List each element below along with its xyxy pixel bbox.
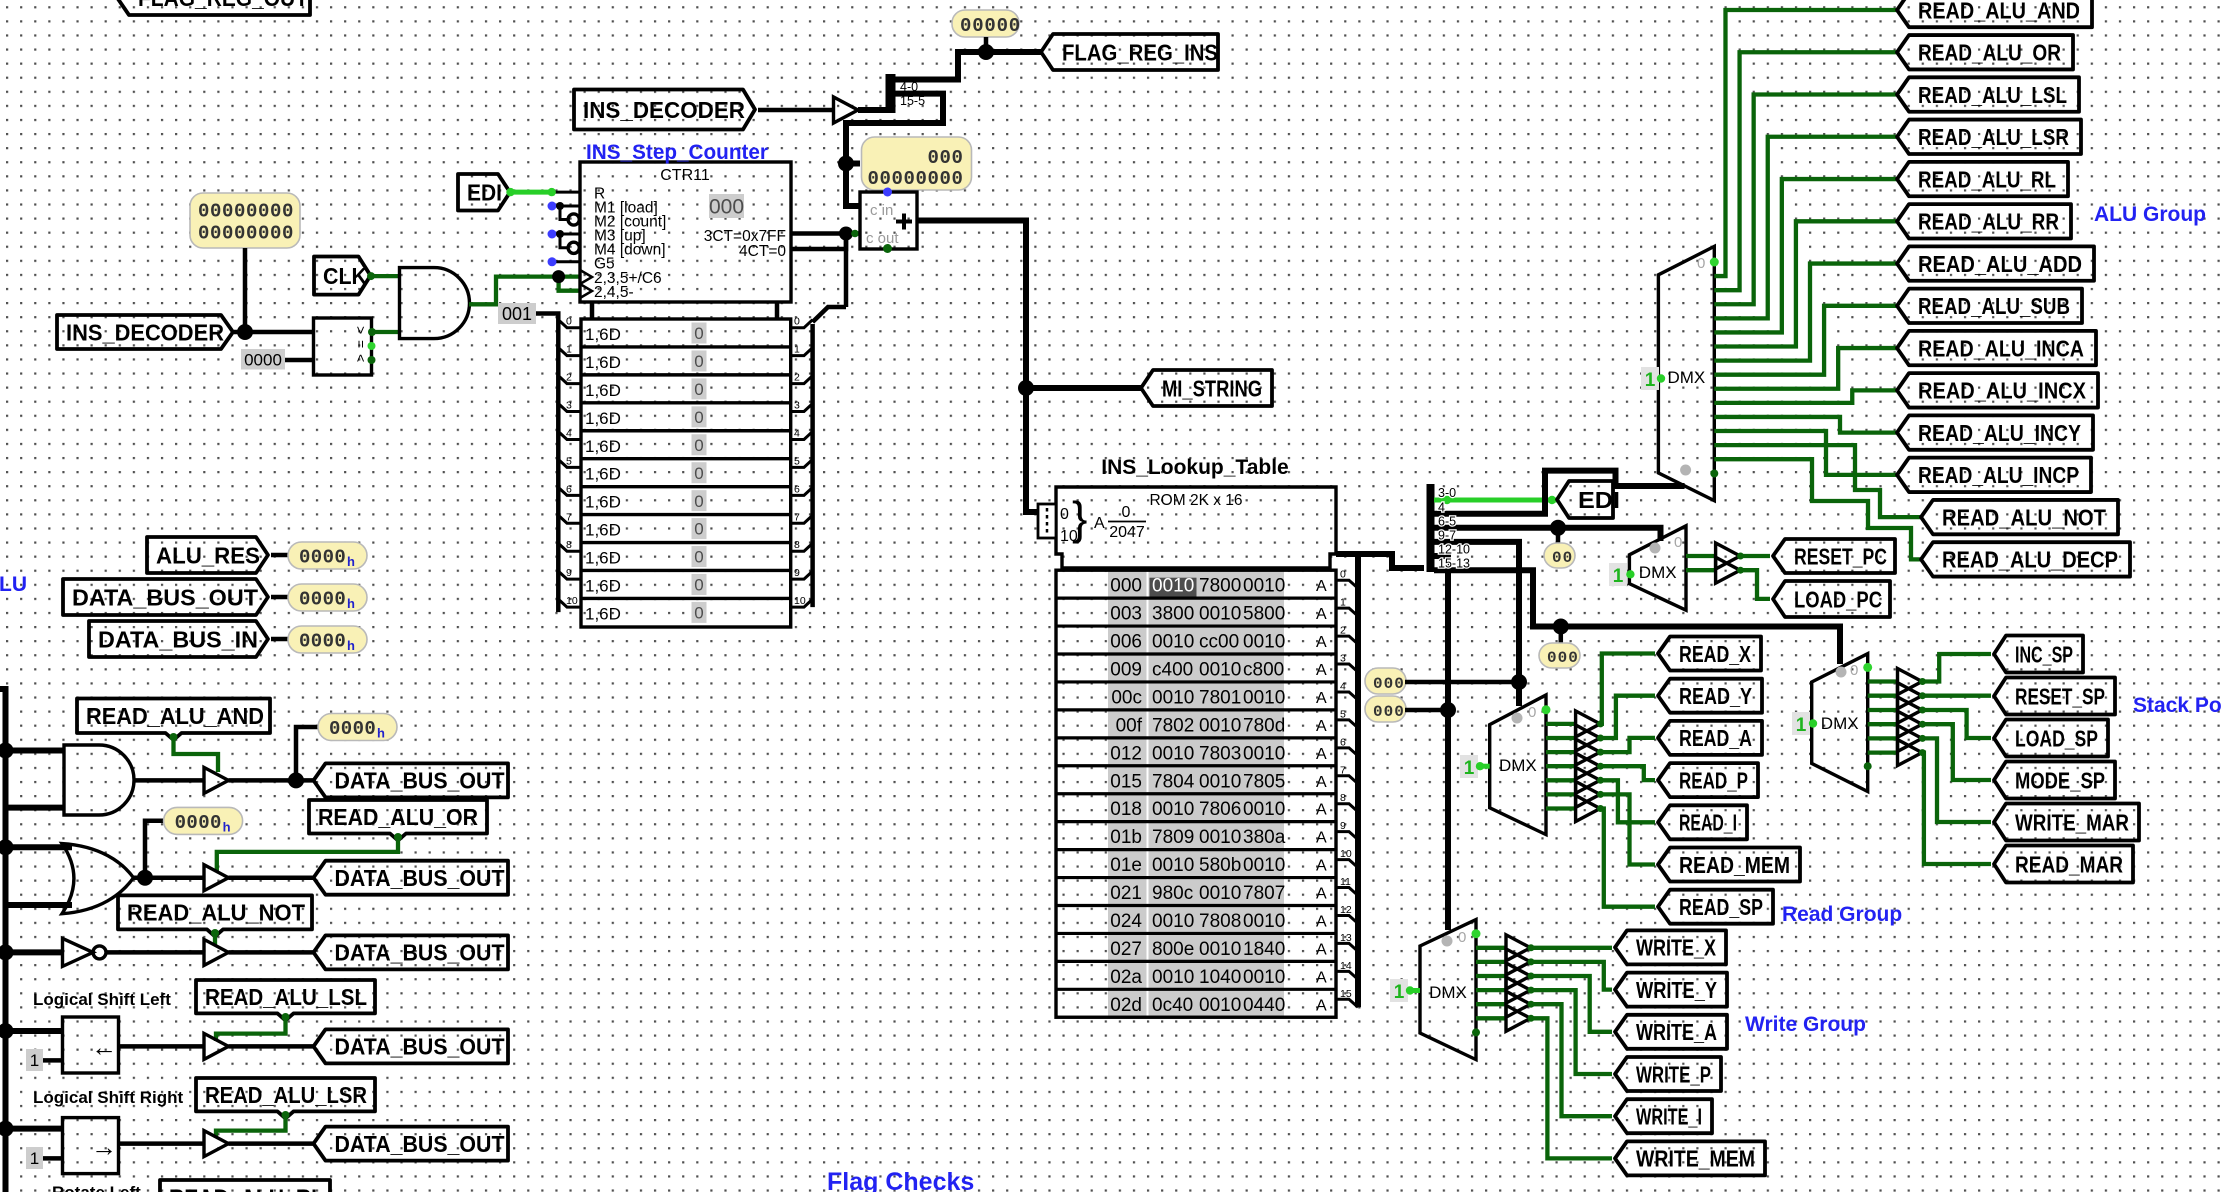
svg-text:READ_SP: READ_SP: [1679, 894, 1763, 920]
pin M2 inverted bubble: [568, 214, 579, 225]
buffer READ_I: [1576, 767, 1604, 793]
tunnel WRITE_MEM: [1615, 1141, 1765, 1175]
dark dot SP pin7: [1864, 762, 1872, 770]
svg-text:Stack Poin: Stack Poin: [2133, 694, 2222, 717]
tunnel READ_MEM: [1658, 848, 1800, 882]
svg-text:LOAD_SP: LOAD_SP: [2015, 725, 2098, 751]
svg-text:WRITE_MEM: WRITE_MEM: [1636, 1146, 1755, 1172]
demux Write group: [1420, 920, 1476, 1060]
wire ALU DMX out14 to READ_ALU_DECP: [1714, 459, 1922, 559]
wire to READ_Y: [1600, 696, 1655, 738]
svg-text:0010: 0010: [1152, 911, 1194, 932]
svg-text:0: 0: [694, 380, 703, 399]
wire OR to buffer: [134, 875, 205, 880]
ROM output tabs: [1316, 569, 1358, 1015]
svg-text:WRITE_X: WRITE_X: [1636, 935, 1717, 961]
svg-text:0: 0: [794, 316, 800, 328]
svg-text:0010: 0010: [1152, 799, 1194, 820]
svg-text:0: 0: [694, 576, 703, 595]
adder U+1: [860, 188, 917, 254]
svg-text:1,6D: 1,6D: [585, 521, 621, 540]
svg-text:A: A: [1316, 858, 1327, 875]
svg-text:MODE_SP: MODE_SP: [2015, 767, 2105, 793]
LED 2-bit PC sel: [1544, 543, 1575, 568]
svg-text:0000: 0000: [299, 547, 346, 569]
wire bus to LSR: [6, 1126, 63, 1132]
wire ALU DMX out6 to READ_ALU_RR: [1714, 221, 1898, 346]
svg-text:0: 0: [1340, 569, 1346, 581]
svg-text:cc00: cc00: [1199, 632, 1239, 653]
svg-text:6-5: 6-5: [1438, 515, 1456, 529]
wire 001 to register input tabs bus: [536, 314, 581, 613]
svg-text:<: <: [353, 354, 369, 362]
LED display 16-bit (INS_DECODER value): [190, 193, 300, 248]
tunnel READ_ALU_INCX: [1897, 373, 2098, 407]
svg-text:WRITE_MAR: WRITE_MAR: [2015, 809, 2129, 835]
svg-text:READ_ALU_AND: READ_ALU_AND: [1918, 0, 2080, 23]
wire bus to AND a: [6, 748, 65, 754]
svg-text:0440: 0440: [1243, 995, 1285, 1016]
svg-text:14: 14: [1340, 960, 1352, 972]
wire ALU DMX out2 to READ_ALU_OR: [1714, 52, 1898, 290]
svg-text:0010: 0010: [1199, 771, 1241, 792]
svg-text:A: A: [1316, 997, 1327, 1014]
svg-text:000: 000: [1547, 649, 1579, 667]
svg-text:A: A: [1316, 774, 1327, 791]
svg-text:LOAD_PC: LOAD_PC: [1794, 586, 1882, 612]
text Logical Shift Left: [33, 990, 171, 1009]
blue title Flag Checks: [827, 1168, 974, 1196]
svg-text:READ_ALU_LSL: READ_ALU_LSL: [205, 984, 367, 1010]
svg-text:READ_ALU_DECP: READ_ALU_DECP: [1942, 547, 2118, 573]
junction write-sel probe: [1440, 702, 1456, 718]
wire write DMX out3: [1476, 974, 1506, 978]
wire READ_ALU_LSR enable: [216, 1111, 290, 1138]
svg-text:7802: 7802: [1152, 715, 1194, 736]
svg-text:0000: 0000: [299, 631, 346, 653]
svg-text:READ_A: READ_A: [1679, 725, 1752, 751]
svg-text:15-13: 15-13: [1438, 557, 1470, 571]
ROM header box: [1056, 487, 1336, 568]
tunnel READ_ALU_INCP: [1897, 458, 2091, 492]
wire ALU DMX out1 to READ_ALU_AND: [1714, 10, 1898, 276]
svg-text:READ_ALU_OR: READ_ALU_OR: [1918, 40, 2061, 66]
const 1 PC DMX select: [1609, 563, 1635, 587]
buffer RESET_PC: [1716, 543, 1744, 569]
svg-text:7: 7: [794, 511, 800, 523]
svg-text:1: 1: [1796, 715, 1807, 736]
wire splitter 15-5 to adder a: [846, 94, 943, 206]
svg-text:Read Group: Read Group: [1782, 903, 1902, 926]
wire SP DMX out3: [1868, 708, 1898, 712]
svg-text:11: 11: [1340, 876, 1351, 888]
splitter output labels: [1438, 486, 1470, 571]
svg-text:1: 1: [566, 344, 572, 356]
wire adder sum to ROM address: [917, 221, 1038, 513]
wire OR probe: [145, 821, 164, 878]
svg-text:10: 10: [566, 595, 578, 607]
svg-text:CLK: CLK: [323, 263, 367, 289]
tunnel READ_ALU_RR: [1897, 204, 2071, 238]
barrel shifter LSR: [63, 1118, 119, 1174]
wire AND out to CTR11 clock pins: [469, 277, 580, 305]
wire SP DMX out4: [1868, 722, 1898, 726]
buffer NOT out: [204, 939, 229, 965]
svg-text:13: 13: [1340, 932, 1352, 944]
wire write DMX out6: [1476, 1016, 1506, 1020]
junction MI_STRING: [1018, 380, 1034, 396]
wire bus to OR a: [6, 844, 73, 850]
svg-text:12: 12: [1340, 904, 1352, 916]
wire ALU DMX out13 to READ_ALU_NOT: [1714, 445, 1922, 517]
const 1 write DMX select: [1390, 979, 1420, 1003]
svg-text:A: A: [1316, 578, 1327, 595]
svg-text:0010: 0010: [1199, 827, 1241, 848]
blue title ALU Group: [2094, 203, 2206, 226]
svg-text:Logical Shift Left: Logical Shift Left: [33, 990, 171, 1009]
buffer OR out: [204, 865, 229, 891]
svg-text:c400: c400: [1152, 660, 1193, 681]
LED 11-bit (microinstruction step): [862, 137, 972, 190]
svg-text:INS_Lookup_Table: INS_Lookup_Table: [1101, 456, 1288, 479]
buffer LOAD_SP: [1898, 697, 1927, 723]
tunnel WRITE_MAR: [1994, 804, 2139, 841]
ALU data bus (left edge): [0, 689, 6, 1192]
ROM address pin block: [1038, 504, 1056, 538]
svg-text:7807: 7807: [1243, 883, 1285, 904]
buffer LOAD_PC: [1716, 557, 1744, 583]
wire buffer to DATA_BUS_OUT (lsr): [229, 1141, 315, 1146]
wire to MI_STRING: [1026, 385, 1142, 391]
wire bus to NOT: [6, 949, 63, 955]
tunnel READ_SP: [1658, 890, 1773, 924]
buffer READ_SP: [1576, 796, 1604, 822]
AND gate (alu): [64, 745, 134, 815]
svg-text:7: 7: [1340, 764, 1346, 776]
svg-text:1: 1: [1645, 370, 1656, 391]
svg-text:READ_ALU_INCY: READ_ALU_INCY: [1918, 420, 2081, 446]
svg-text:DMX: DMX: [1821, 714, 1859, 733]
svg-text:0: 0: [1697, 255, 1705, 272]
tunnel READ_ALU_LSL enable: [196, 980, 375, 1020]
svg-text:0010: 0010: [1243, 855, 1285, 876]
svg-text:0010: 0010: [1243, 799, 1285, 820]
buffer driver: [834, 97, 859, 123]
buffer WRITE_MAR: [1898, 725, 1927, 751]
svg-text:A: A: [1316, 634, 1327, 651]
svg-text:READ_P: READ_P: [1679, 767, 1748, 793]
svg-text:5800: 5800: [1243, 604, 1285, 625]
svg-text:A: A: [1316, 802, 1327, 819]
buffer WRITE_X: [1506, 935, 1535, 961]
svg-text:5: 5: [566, 455, 572, 467]
junction read-sel probe: [1511, 674, 1527, 690]
wire buffer to DATA_BUS_OUT (or): [229, 875, 315, 880]
tunnel DATA_BUS_OUT (lsr): [314, 1127, 509, 1161]
svg-text:780d: 780d: [1243, 715, 1285, 736]
svg-text:1: 1: [1613, 566, 1624, 587]
svg-text:1,6D: 1,6D: [585, 604, 621, 623]
gray dot SP DMX input: [1836, 667, 1847, 678]
buffer WRITE_Y: [1506, 949, 1535, 975]
svg-text:READ_Y: READ_Y: [1679, 683, 1752, 709]
wire PC out1: [1686, 568, 1716, 572]
svg-text:0010: 0010: [1152, 967, 1194, 988]
svg-text:A: A: [1316, 662, 1327, 679]
wire to WRITE_MAR: [1922, 738, 1991, 822]
svg-text:READ_MEM: READ_MEM: [1679, 852, 1790, 878]
wire to INC_SP: [1922, 654, 1991, 682]
svg-text:Write Group: Write Group: [1745, 1013, 1866, 1036]
tunnel READ_I: [1658, 805, 1747, 839]
svg-text:0: 0: [694, 520, 703, 539]
svg-text:9: 9: [794, 567, 800, 579]
bright dot read pin0: [1542, 705, 1551, 714]
svg-text:1,6D: 1,6D: [585, 325, 621, 344]
svg-text:A: A: [1316, 606, 1327, 623]
wire SP DMX out5: [1868, 736, 1898, 740]
svg-text:INC_SP: INC_SP: [2015, 641, 2073, 667]
wire AND to buffer: [134, 778, 205, 783]
buffer WRITE_I: [1506, 991, 1535, 1017]
wire ALU DMX out10 to READ_ALU_INCX: [1714, 390, 1898, 403]
buffer LSL out: [204, 1033, 229, 1059]
svg-text:2: 2: [566, 372, 572, 384]
splitter 16 to 4-0/15-5: [886, 74, 926, 113]
tunnel WRITE_X: [1615, 930, 1726, 964]
svg-text:c in: c in: [870, 202, 893, 219]
svg-text:12-10: 12-10: [1438, 543, 1470, 557]
demux ALU group: [1658, 246, 1714, 500]
pin M1 stub: [548, 202, 581, 220]
svg-text:DATA_BUS_OUT: DATA_BUS_OUT: [72, 584, 258, 610]
svg-text:7803: 7803: [1199, 743, 1241, 764]
tunnel READ_ALU_SUB: [1897, 289, 2082, 323]
svg-text:READ_X: READ_X: [1679, 641, 1752, 667]
svg-text:1,6D: 1,6D: [585, 353, 621, 372]
gray dot write DMX input: [1442, 936, 1453, 947]
wire to WRITE_A: [1531, 976, 1613, 1032]
svg-text:580b: 580b: [1199, 855, 1241, 876]
tunnel DATA_BUS_OUT probe: [63, 579, 268, 615]
svg-text:0: 0: [694, 352, 703, 371]
comparator (a=b): [314, 318, 376, 375]
svg-text:3: 3: [794, 400, 800, 412]
wire const to LSL: [43, 1058, 63, 1063]
tunnel READ_ALU_NOT: [1921, 500, 2118, 534]
wire to WRITE_P: [1531, 990, 1613, 1074]
wire read DMX out4: [1546, 764, 1576, 768]
NOT gate: [63, 938, 107, 966]
svg-text:>: >: [353, 326, 369, 334]
junction clock wire: [552, 270, 565, 283]
tunnel READ_Y: [1658, 679, 1762, 713]
counter CTR11 box: [580, 162, 791, 302]
bright dot ALU pin0: [1710, 258, 1719, 267]
svg-text:021: 021: [1110, 883, 1142, 904]
svg-text:0: 0: [1850, 662, 1858, 679]
gray dot PC DMX input: [1650, 543, 1661, 554]
svg-text:8: 8: [794, 539, 800, 551]
buffer READ_A: [1576, 739, 1604, 765]
svg-text:1: 1: [1464, 758, 1475, 779]
tunnel READ_ALU_NOT enable: [118, 895, 312, 936]
tunnel READ_ALU_INCA: [1897, 331, 2096, 365]
svg-text:0: 0: [694, 408, 703, 427]
svg-text:EDI: EDI: [1578, 487, 1620, 513]
svg-text:DATA_BUS_OUT: DATA_BUS_OUT: [335, 865, 505, 891]
tunnel READ_ALU_AND: [1897, 0, 2092, 27]
svg-text:02a: 02a: [1110, 967, 1142, 988]
wire DATA_BUS_OUT probe: [271, 595, 290, 600]
wire to LED 11-bit: [846, 161, 860, 167]
svg-text:8: 8: [566, 539, 572, 551]
wire read DMX out6: [1546, 792, 1576, 796]
svg-text:0010: 0010: [1243, 911, 1285, 932]
text Logical Shift Right: [33, 1088, 183, 1107]
value 0000 (comparator b): [241, 349, 285, 370]
wire 12-10 to write DMX: [1434, 556, 1448, 930]
tunnel READ_ALU_OR: [1897, 35, 2073, 69]
svg-text:018: 018: [1110, 799, 1142, 820]
buffer READ_MAR: [1898, 740, 1927, 766]
demux Read group: [1490, 695, 1546, 835]
tunnel MI_STRING: [1141, 370, 1272, 406]
svg-text:DATA_BUS_OUT: DATA_BUS_OUT: [335, 1034, 505, 1060]
svg-text:A: A: [1316, 886, 1327, 903]
tunnel EDI (top left): [458, 174, 510, 211]
tunnel READ_A: [1658, 721, 1762, 755]
junction bus NOT: [0, 944, 14, 960]
wire NOT to buffer: [106, 950, 204, 955]
svg-text:h: h: [377, 726, 385, 741]
tunnel LOAD_SP: [1994, 720, 2108, 757]
svg-text:FLAG_REG_OUT: FLAG_REG_OUT: [138, 0, 308, 11]
wire INS_DECODER to buffer: [758, 108, 833, 113]
wire to READ_SP: [1600, 809, 1655, 907]
svg-text:RESET_PC: RESET_PC: [1794, 543, 1887, 569]
pin M4 inverted bubble: [568, 242, 579, 253]
svg-text:FLAG_REG_INS: FLAG_REG_INS: [1062, 39, 1218, 65]
wire read-sel probe: [1405, 680, 1519, 685]
svg-text:4CT=0: 4CT=0: [739, 243, 786, 260]
svg-text:0: 0: [694, 324, 703, 343]
svg-text:READ_ALU_INCP: READ_ALU_INCP: [1918, 462, 2079, 488]
svg-text:0010: 0010: [1199, 883, 1241, 904]
svg-text:WRITE_A: WRITE_A: [1636, 1019, 1717, 1045]
wire comparator = to AND gate: [368, 328, 400, 336]
svg-text:10: 10: [794, 595, 806, 607]
svg-text:0000: 0000: [329, 718, 376, 740]
wire READ_ALU_OR enable: [217, 833, 402, 871]
svg-text:7805: 7805: [1243, 771, 1285, 792]
tunnel LOAD_PC: [1773, 581, 1890, 617]
svg-text:READ_ALU_NOT: READ_ALU_NOT: [127, 900, 305, 926]
blue title Write Group: [1745, 1013, 1866, 1036]
buffer READ_P: [1576, 753, 1604, 779]
barrel shifter LSL: [63, 1017, 119, 1073]
svg-text:5: 5: [794, 455, 800, 467]
junction node INS_DECODER/LED: [237, 324, 253, 340]
svg-text:READ_ALU_INCX: READ_ALU_INCX: [1918, 378, 2087, 404]
svg-text:DMX: DMX: [1499, 756, 1537, 775]
tunnel CLK: [314, 257, 371, 295]
wire buffer to splitter: [858, 107, 887, 113]
svg-text:4: 4: [1340, 680, 1346, 692]
LED 3-bit write sel: [1365, 696, 1406, 722]
wire to LOAD_PC: [1740, 570, 1770, 599]
tunnel READ_ALU_RL (clipped): [160, 1180, 330, 1197]
wire SP DMX out6: [1868, 750, 1898, 754]
wire CLK to AND gate: [367, 272, 400, 280]
LED 3-bit SP sel: [1539, 643, 1580, 668]
svg-text:Logical Shift Right: Logical Shift Right: [33, 1088, 183, 1107]
wire ALU DMX out8 to READ_ALU_SUB: [1714, 306, 1898, 375]
svg-text:000: 000: [1110, 576, 1142, 597]
svg-text:0c40: 0c40: [1152, 995, 1193, 1016]
probe DATA_BUS_IN: [288, 626, 367, 653]
svg-text:006: 006: [1110, 632, 1142, 653]
tunnel WRITE_A: [1615, 1015, 1727, 1049]
wire bit4 to ALU DMX select (over EDI): [1434, 471, 1685, 514]
wire 3CT out to 4CT in: [791, 227, 860, 250]
svg-text:A: A: [1316, 941, 1327, 958]
wire 0000 to comparator b: [285, 358, 314, 363]
svg-text:0: 0: [694, 548, 703, 567]
svg-text:9: 9: [1340, 820, 1346, 832]
const 1 LSL: [26, 1049, 43, 1071]
svg-text:0010: 0010: [1152, 855, 1194, 876]
demux Stack Pointer group: [1812, 654, 1868, 792]
wire LSR to buffer: [119, 1141, 205, 1146]
svg-text:7800: 7800: [1199, 576, 1241, 597]
tunnel INS_DECODER (top): [574, 90, 755, 130]
wire to MODE_SP: [1922, 724, 1991, 780]
wire ALU DMX out5 to READ_ALU_RL: [1714, 179, 1898, 332]
svg-text:7801: 7801: [1199, 687, 1241, 708]
wire ALU DMX out9 to READ_ALU_INCA: [1714, 348, 1898, 389]
svg-text:A: A: [1094, 515, 1105, 532]
wire register out to adder b: [813, 234, 846, 323]
svg-text:WRITE_I: WRITE_I: [1636, 1103, 1702, 1129]
gray dot ALU DMX input: [1680, 465, 1691, 476]
wire read DMX out7: [1546, 806, 1576, 810]
svg-text:h: h: [347, 554, 355, 569]
wire buffer to DATA_BUS_OUT: [229, 778, 315, 783]
wire to READ_I: [1600, 780, 1655, 822]
svg-text:READ_ALU_LSL: READ_ALU_LSL: [1918, 82, 2067, 108]
tunnel READ_P: [1658, 763, 1758, 797]
svg-text:READ_ALU_SUB: READ_ALU_SUB: [1918, 293, 2070, 319]
svg-text:0010: 0010: [1152, 632, 1194, 653]
tunnel WRITE_Y: [1615, 973, 1727, 1007]
tunnel READ_ALU_LSR enable: [196, 1078, 375, 1118]
wire to RESET_SP: [1922, 694, 1991, 698]
svg-text:000: 000: [1373, 703, 1405, 721]
svg-text:1,6D: 1,6D: [585, 437, 621, 456]
svg-text:7808: 7808: [1199, 911, 1241, 932]
wire 3-0 to EDI (green): [1434, 496, 1558, 504]
svg-text:h: h: [223, 819, 231, 834]
wire write-sel probe: [1405, 708, 1448, 713]
svg-text:h: h: [347, 596, 355, 611]
svg-text:2,4,5-: 2,4,5-: [594, 284, 634, 301]
tunnel READ_ALU_AND enable: [77, 699, 270, 741]
svg-text:READ_ALU_AND: READ_ALU_AND: [86, 703, 264, 729]
wire PC out0: [1686, 554, 1716, 558]
LED 3-bit read sel: [1365, 668, 1406, 694]
junction sp-sel probe: [1553, 619, 1569, 635]
